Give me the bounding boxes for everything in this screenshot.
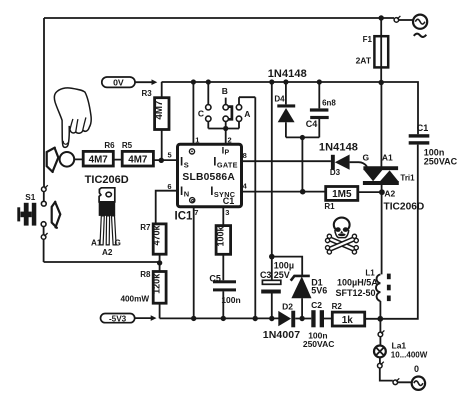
svg-text:1: 1 xyxy=(195,136,199,145)
svg-text:C2: C2 xyxy=(311,300,322,310)
svg-text:250VAC: 250VAC xyxy=(303,339,335,349)
svg-text:25V: 25V xyxy=(274,270,290,280)
svg-text:A2: A2 xyxy=(102,248,113,257)
svg-text:R8: R8 xyxy=(140,270,151,279)
svg-text:0V: 0V xyxy=(113,78,124,88)
svg-text:5V6: 5V6 xyxy=(311,286,327,296)
svg-text:L1: L1 xyxy=(365,268,375,277)
svg-text:1N4148: 1N4148 xyxy=(319,142,358,154)
svg-text:R6: R6 xyxy=(104,141,115,150)
svg-text:B: B xyxy=(222,86,228,96)
svg-text:6n8: 6n8 xyxy=(322,99,336,108)
svg-text:470k: 470k xyxy=(152,224,162,245)
svg-text:R2: R2 xyxy=(332,302,343,311)
svg-text:S1: S1 xyxy=(25,193,35,202)
svg-text:8: 8 xyxy=(243,151,247,160)
svg-text:100n: 100n xyxy=(221,295,240,305)
svg-text:D3: D3 xyxy=(330,168,341,177)
svg-text:G: G xyxy=(362,152,369,162)
svg-text:C1: C1 xyxy=(223,196,235,206)
svg-text:400mW: 400mW xyxy=(120,295,149,304)
svg-text:G: G xyxy=(115,239,121,248)
svg-text:S: S xyxy=(184,160,189,169)
svg-text:D4: D4 xyxy=(274,95,285,104)
svg-text:100k: 100k xyxy=(215,225,225,246)
svg-text:N: N xyxy=(184,190,189,199)
svg-text:R5: R5 xyxy=(122,141,133,150)
svg-text:1N4007: 1N4007 xyxy=(263,329,300,341)
svg-text:4M7: 4M7 xyxy=(154,100,165,120)
svg-text:1N4148: 1N4148 xyxy=(268,68,307,80)
svg-text:F1: F1 xyxy=(363,35,373,44)
svg-text:La1: La1 xyxy=(392,340,407,350)
svg-text:100µH/5A: 100µH/5A xyxy=(337,278,378,288)
svg-text:R3: R3 xyxy=(141,89,152,98)
svg-text:3: 3 xyxy=(225,208,229,217)
svg-text:C1: C1 xyxy=(417,123,429,133)
svg-text:Tri1: Tri1 xyxy=(400,173,415,182)
svg-text:10...400W: 10...400W xyxy=(391,351,428,360)
svg-text:4M7: 4M7 xyxy=(128,154,148,165)
svg-text:SLB0586A: SLB0586A xyxy=(182,172,235,183)
svg-text:C5: C5 xyxy=(209,274,221,284)
svg-text:A1: A1 xyxy=(91,239,102,248)
svg-text:1M5: 1M5 xyxy=(332,189,352,200)
svg-text:R1: R1 xyxy=(324,202,335,211)
svg-text:IC1: IC1 xyxy=(175,211,194,223)
svg-text:A1: A1 xyxy=(382,152,393,162)
svg-text:TIC206D: TIC206D xyxy=(85,174,129,186)
svg-text:C3: C3 xyxy=(260,270,272,280)
svg-text:A: A xyxy=(244,109,250,119)
svg-text:4M7: 4M7 xyxy=(89,154,109,165)
svg-text:TIC206D: TIC206D xyxy=(384,202,425,213)
svg-text:D2: D2 xyxy=(282,302,293,312)
svg-text:120k: 120k xyxy=(152,273,162,294)
svg-text:-5V3: -5V3 xyxy=(109,314,127,323)
svg-text:100µ: 100µ xyxy=(274,260,294,270)
svg-text:A2: A2 xyxy=(384,188,395,198)
svg-text:P: P xyxy=(225,149,230,156)
svg-text:6: 6 xyxy=(167,182,171,191)
svg-text:C: C xyxy=(198,109,204,119)
svg-text:5: 5 xyxy=(168,151,172,160)
svg-text:0: 0 xyxy=(414,364,419,374)
svg-text:2: 2 xyxy=(228,136,232,145)
svg-text:C4: C4 xyxy=(306,119,318,129)
svg-text:2AT: 2AT xyxy=(356,56,372,66)
svg-text:250VAC: 250VAC xyxy=(424,157,458,167)
svg-text:7: 7 xyxy=(194,208,198,217)
svg-text:SFT12-50: SFT12-50 xyxy=(336,288,376,298)
svg-text:GATE: GATE xyxy=(217,160,238,169)
svg-text:1k: 1k xyxy=(342,315,354,326)
svg-text:R7: R7 xyxy=(140,223,151,232)
